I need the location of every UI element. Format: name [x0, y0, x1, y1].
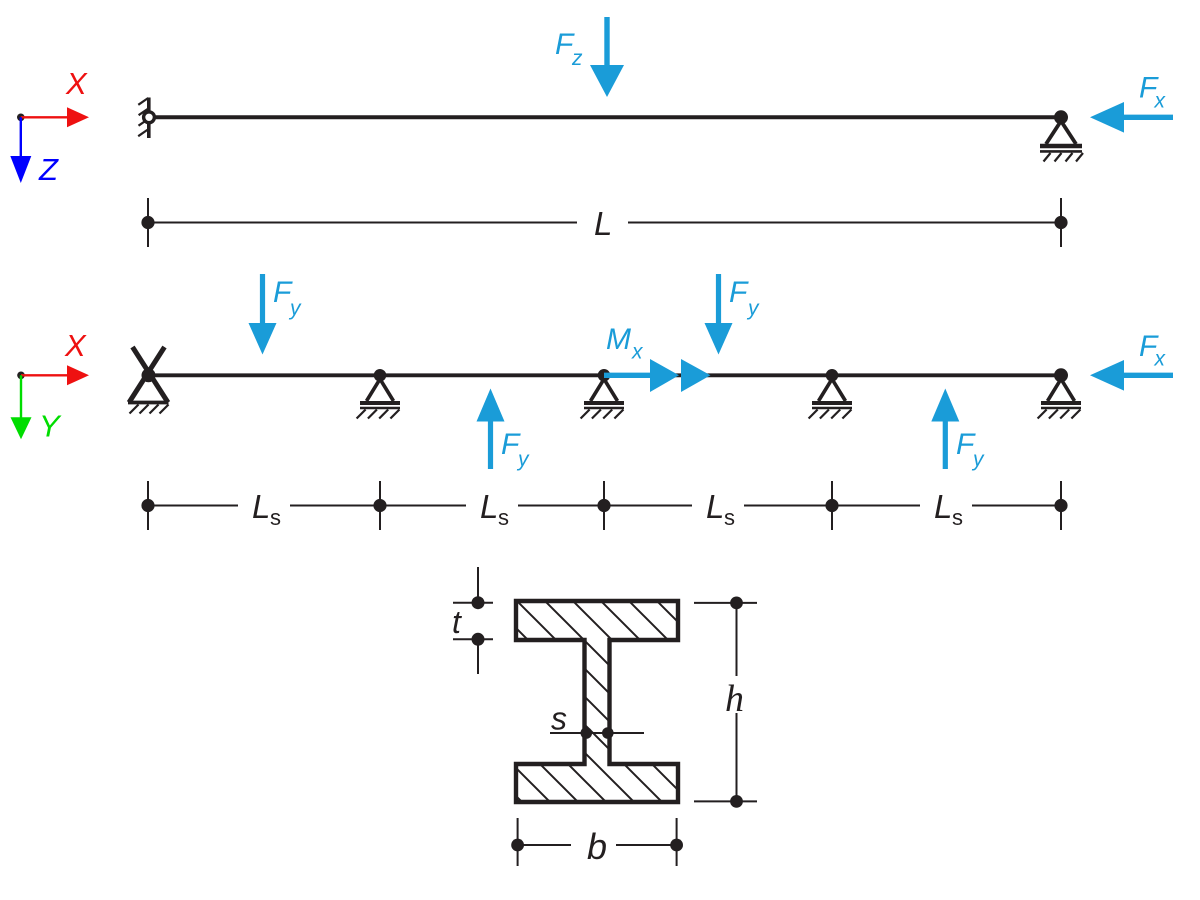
force Fx (middle) [1090, 330, 1173, 391]
force Fy down 2 [705, 274, 761, 355]
support B (pinned) [357, 369, 400, 419]
svg-text:L: L [934, 488, 952, 525]
svg-text:s: s [952, 505, 963, 530]
I-beam section outline + hatch [516, 601, 678, 802]
axis X2 [21, 328, 89, 385]
svg-text:s: s [551, 701, 567, 737]
svg-text:L: L [252, 488, 270, 525]
svg-text:h: h [725, 678, 744, 720]
svg-text:L: L [706, 488, 724, 525]
dimension s [550, 701, 644, 739]
dimension Ls row [141, 481, 1067, 530]
svg-text:X: X [64, 328, 87, 363]
svg-text:b: b [587, 826, 607, 867]
moment Mx [604, 323, 711, 392]
svg-text:s: s [498, 505, 509, 530]
svg-text:y: y [971, 448, 985, 471]
dimension b [511, 818, 683, 867]
svg-text:z: z [571, 47, 583, 70]
svg-text:M: M [606, 323, 631, 356]
axis Y2 [11, 375, 63, 443]
svg-text:s: s [724, 505, 735, 530]
svg-text:x: x [1154, 348, 1167, 371]
svg-text:Z: Z [38, 152, 59, 187]
svg-text:F: F [729, 276, 749, 309]
support 2 right (pinned) [1040, 110, 1083, 161]
beam 1 [151, 115, 1061, 119]
svg-text:x: x [631, 341, 644, 364]
svg-text:X: X [65, 66, 88, 101]
axis system 2 origin [17, 372, 25, 380]
support A (fixed X-cross) [128, 347, 169, 414]
svg-text:s: s [270, 505, 281, 530]
beam 2 [148, 373, 1061, 377]
svg-text:x: x [1154, 90, 1167, 113]
svg-text:t: t [452, 604, 462, 640]
svg-text:y: y [288, 297, 302, 320]
dimension h [694, 597, 757, 808]
force Fy up 2 [931, 389, 985, 472]
support D (pinned) [809, 369, 852, 419]
svg-text:Y: Y [39, 409, 62, 444]
dimension L [141, 198, 1067, 247]
support 1 left (hinged on wall) [138, 98, 154, 139]
support E right (pinned) [1038, 368, 1081, 418]
axis system 1 origin [17, 114, 25, 122]
svg-text:y: y [746, 297, 760, 320]
force Fy down 1 [249, 274, 303, 355]
force Fy up 1 [477, 389, 531, 472]
svg-text:y: y [516, 448, 530, 471]
force Fz [555, 17, 624, 97]
svg-text:L: L [480, 488, 498, 525]
svg-text:L: L [594, 205, 612, 242]
support C (pinned) [581, 369, 624, 419]
force Fx (top) [1090, 72, 1173, 133]
dimension t [452, 567, 493, 674]
axis Z1 [10, 117, 59, 187]
axis X1 [21, 66, 89, 127]
